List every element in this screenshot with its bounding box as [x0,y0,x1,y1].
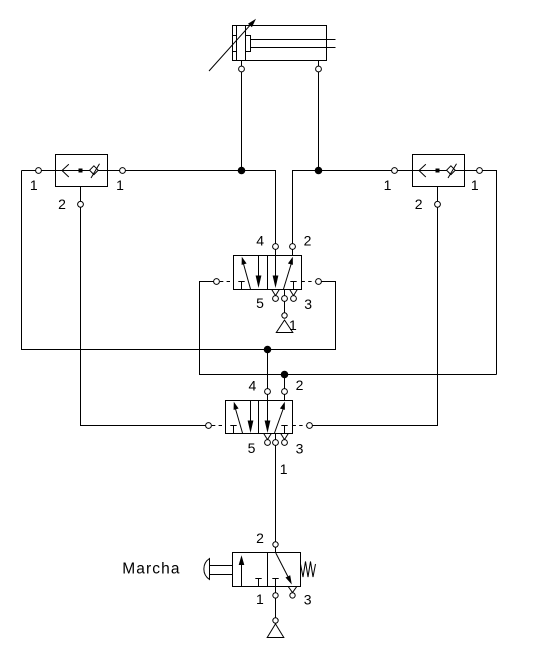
svg-text:3: 3 [304,296,312,312]
svg-text:1: 1 [30,177,38,193]
svg-text:5: 5 [256,295,264,311]
svg-text:4: 4 [249,378,257,394]
svg-text:3: 3 [296,440,304,456]
svg-text:1: 1 [471,177,479,193]
svg-text:1: 1 [116,177,124,193]
svg-text:5: 5 [248,440,256,456]
svg-text:1: 1 [256,591,264,607]
svg-text:1: 1 [280,461,288,477]
svg-text:3: 3 [304,591,312,607]
svg-text:1: 1 [289,317,297,333]
svg-text:2: 2 [58,196,66,212]
svg-text:2: 2 [296,377,304,393]
svg-text:2: 2 [415,196,423,212]
svg-text:2: 2 [304,233,312,249]
svg-text:Marcha: Marcha [122,561,180,578]
svg-text:4: 4 [256,233,264,249]
svg-text:1: 1 [384,177,392,193]
svg-text:2: 2 [256,530,264,546]
